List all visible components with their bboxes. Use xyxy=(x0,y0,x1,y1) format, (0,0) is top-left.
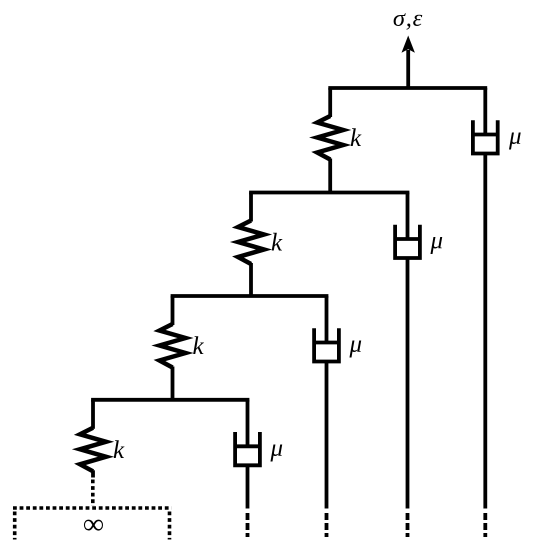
dotted left leg xyxy=(13,512,17,540)
wire spring k2 bottom lead xyxy=(249,263,253,296)
dotted right leg xyxy=(168,512,172,540)
bar level 3 xyxy=(173,294,327,298)
spring k3 xyxy=(160,324,186,368)
dashpot mu4 rod xyxy=(246,400,250,447)
svg-text:μ: μ xyxy=(270,435,284,462)
wire below dashpot mu4 xyxy=(246,465,250,508)
dashpot mu3 rod xyxy=(325,296,329,343)
dotted lead below spring k4 xyxy=(91,480,95,507)
dashpot mu3 cup xyxy=(314,328,339,361)
bar level 2 xyxy=(251,191,408,195)
dashpot mu1 cup xyxy=(473,120,498,153)
wire below dashpot mu3 xyxy=(325,362,329,509)
wire spring k1 bottom lead xyxy=(328,159,332,193)
svg-text:∞: ∞ xyxy=(83,509,104,541)
wire spring k3 bottom lead xyxy=(171,367,175,400)
dashpot mu1 piston plate xyxy=(473,133,498,137)
svg-text:k: k xyxy=(271,230,283,257)
dashed continuation column 1 xyxy=(246,513,250,537)
wire spring k1 top lead xyxy=(328,88,332,117)
wire spring k4 top lead xyxy=(91,400,95,429)
dashed continuation column 4 xyxy=(483,513,487,537)
spring k4 xyxy=(80,428,106,472)
svg-text:k: k xyxy=(113,437,125,464)
svg-text:k: k xyxy=(193,333,205,360)
wire spring k2 top lead xyxy=(249,193,253,222)
dashpot mu3 piston plate xyxy=(314,341,339,345)
spring k2 xyxy=(238,221,264,265)
dashpot mu2 cup xyxy=(395,225,420,258)
dashpot mu2 rod xyxy=(406,193,410,240)
wire spring k4 bottom stub xyxy=(91,470,95,477)
wire below dashpot mu2 xyxy=(406,258,410,509)
dotted horizontal rail xyxy=(13,506,172,510)
svg-text:μ: μ xyxy=(349,331,363,358)
dashpot mu4 cup xyxy=(235,432,260,465)
dashed continuation column 3 xyxy=(406,513,410,537)
dashpot mu2 piston plate xyxy=(395,237,420,241)
svg-text:σ,ε: σ,ε xyxy=(393,5,423,32)
arrow stem xyxy=(406,50,410,88)
arrowhead xyxy=(402,36,415,53)
svg-text:μ: μ xyxy=(508,123,522,150)
svg-text:k: k xyxy=(350,125,362,152)
svg-text:μ: μ xyxy=(430,228,444,255)
wire spring k3 top lead xyxy=(171,296,175,325)
bar level 1 xyxy=(330,86,485,90)
spring k1 xyxy=(317,116,343,160)
wire below dashpot mu1 xyxy=(483,154,487,509)
dashpot mu1 rod xyxy=(483,88,487,135)
dashpot mu4 piston plate xyxy=(235,444,260,448)
bar level 4 xyxy=(93,398,248,402)
dashed continuation column 2 xyxy=(325,513,329,537)
